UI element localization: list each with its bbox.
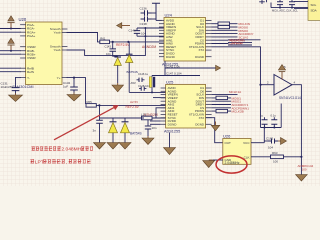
wire VCC riser: [263, 128, 265, 143]
pins U20 right: [62, 29, 67, 78]
svg-text:MCLK1A: MCLK1A: [229, 90, 242, 94]
svg-text:U20: U20: [19, 17, 27, 22]
ground below C133: [67, 93, 81, 101]
ground diode D4: [119, 143, 131, 150]
capacitor C136: [140, 7, 157, 16]
wire U20 right pin2: [67, 50, 145, 55]
wire buffer output down: [292, 85, 301, 175]
wire U26 VCC pin: [251, 142, 264, 144]
svg-text:Ysub: Ysub: [53, 31, 60, 35]
svg-text:Y+: Y+: [57, 76, 61, 80]
power port VAA lower: [8, 38, 14, 52]
ground U25 DGND: [211, 125, 220, 131]
IC U25 ADS1255 body: [166, 80, 206, 129]
wire bracket top right: [271, 7, 308, 9]
red annotation arrowhead: [113, 105, 119, 110]
svg-text:Y-: Y-: [27, 76, 30, 80]
ground below C131: [9, 94, 23, 102]
pins U24 right: [206, 20, 212, 56]
U20 pin names left: [27, 23, 36, 80]
wire U26 GND pin: [213, 159, 223, 161]
junction AIN rail: [98, 104, 100, 106]
junction cap A: [112, 41, 114, 43]
stub rows to buffer column: [228, 40, 261, 45]
wire left inputs group3: [0, 68, 21, 72]
wire to MCLKIN label: [230, 23, 238, 25]
wire Y+ output: [67, 78, 86, 104]
svg-text:SCL: SCL: [311, 3, 317, 7]
resistor R55: [218, 22, 230, 25]
capacitor C129: [139, 87, 146, 91]
power arrow VREF mid: [216, 65, 221, 71]
U25 pin names right: [189, 86, 205, 126]
junction buffer input: [259, 84, 261, 86]
capacitor C133: [63, 78, 77, 93]
U26 pin names: [225, 141, 233, 162]
U20 pin names right: [50, 27, 61, 80]
svg-text:MCU_ADC_CLK_SCL: MCU_ADC_CLK_SCL: [272, 8, 298, 12]
wire VREF mid: [165, 67, 216, 69]
svg-text:PGA+: PGA+: [27, 34, 36, 38]
svg-text:Ysub: Ysub: [53, 48, 60, 52]
wire vertical mid column: [144, 28, 146, 55]
wire R63 to vertical: [284, 156, 302, 158]
wire decoupling bracket: [261, 104, 282, 128]
svg-text:REF2.5V: REF2.5V: [126, 105, 140, 109]
svg-text:XT2: XT2: [198, 48, 204, 52]
power rail A5V top: [152, 3, 162, 20]
svg-text:10n: 10n: [152, 126, 157, 130]
wire diode B rail: [100, 105, 145, 120]
pins U25 right: [206, 88, 212, 124]
decoupling capacitor C144: [260, 114, 268, 128]
inductor L13: [141, 112, 152, 119]
resistor R65: [86, 100, 96, 107]
svg-text:104: 104: [268, 146, 273, 150]
svg-text:C165: C165: [266, 137, 274, 141]
svg-text:MCLK2B: MCLK2B: [232, 110, 244, 114]
junction mid column: [144, 35, 146, 37]
wire mid vertical stub: [164, 61, 166, 76]
wire RefB to C131: [16, 77, 21, 79]
ground diode D3: [107, 143, 119, 150]
capacitor C138: [140, 16, 157, 26]
power port arrow left VREF: [117, 23, 130, 29]
capacitor C151 top right: [289, 0, 295, 8]
wire AVDD row into U25: [129, 91, 165, 93]
svg-text:A2.5V: A2.5V: [130, 100, 138, 104]
svg-text:10uF/25V: 10uF/25V: [1, 85, 14, 89]
diode D3 BAT54S: [109, 118, 118, 143]
capacitor C141: [145, 120, 157, 136]
IC U24 ADS1255 body: [164, 13, 206, 62]
resistor R61: [100, 37, 110, 44]
svg-text:U25: U25: [166, 80, 174, 85]
red annotation text line1: [31, 146, 93, 151]
svg-text:0.1u: 0.1u: [271, 114, 277, 118]
wire into note box row2: [294, 7, 308, 9]
svg-text:C142 1.0k: C142 1.0k: [166, 64, 180, 68]
wire DRDY row: [212, 33, 238, 35]
svg-text:U26: U26: [223, 134, 231, 139]
wire cap C140 rows to IC1: [137, 28, 164, 36]
inverter U27 SN74LVC1G14: [274, 75, 301, 101]
junction R63 output: [300, 156, 302, 158]
red ellipse annotation: [216, 156, 247, 173]
wire DGND down: [215, 122, 217, 126]
svg-text:3n: 3n: [93, 129, 97, 133]
wire into note box row1: [294, 1, 308, 3]
wire L13 to IC2: [152, 108, 166, 118]
svg-text:ADS1255: ADS1255: [164, 129, 180, 133]
power arrow U27 VCC: [278, 65, 286, 80]
wire MISO row: [212, 29, 238, 31]
svg-text:R61: R61: [100, 37, 106, 41]
junction diode A2: [127, 41, 129, 43]
power port VAA upper: [8, 16, 14, 30]
resistor R57: [216, 96, 228, 99]
svg-text:DGND: DGND: [168, 122, 178, 126]
svg-text:RefS: RefS: [27, 70, 34, 74]
wire MCLKIN row: [212, 23, 219, 25]
svg-text:SN74LVC1G14: SN74LVC1G14: [279, 96, 301, 100]
wire VREFP short row: [153, 97, 166, 99]
svg-text:C136: C136: [140, 7, 148, 11]
capacitor C139/C140: [129, 28, 147, 36]
wire mid second: [152, 75, 200, 77]
wire DVDD left: [150, 120, 161, 122]
svg-text:1uF: 1uF: [63, 85, 68, 89]
junction Y+ / C133: [73, 77, 75, 79]
svg-text:100: 100: [302, 168, 307, 172]
wire cap under U25: [169, 133, 171, 148]
decoupling capacitor C145: [271, 114, 278, 128]
wire C165 tap: [264, 140, 268, 142]
capacitor C131: [1, 78, 19, 94]
ground C165: [278, 138, 287, 145]
wire AIN rail to IC2: [96, 104, 165, 106]
wire left inputs group2: [0, 51, 21, 55]
svg-text:R63: R63: [272, 151, 278, 155]
pins U24 left: [159, 20, 164, 56]
ground buffer output bottom: [296, 175, 308, 181]
svg-text:2.048MHz: 2.048MHz: [225, 161, 240, 165]
diode D2 BAT54S: [126, 42, 133, 63]
wire MISO1 row: [212, 100, 231, 102]
U24 pin names right: [189, 19, 205, 59]
wire XT1 row to oscillator: [206, 118, 223, 143]
svg-text:2.048MHz: 2.048MHz: [61, 147, 84, 153]
component stub far top: [259, 0, 266, 4]
svg-text:BAT54S: BAT54S: [127, 70, 138, 74]
wire DRDY1 row: [212, 104, 231, 106]
wire U26 CLK pin: [251, 156, 271, 158]
oscillator U26 body: [223, 134, 251, 165]
svg-text:VSNR: VSNR: [27, 56, 36, 60]
wire polarized cap column: [151, 76, 153, 93]
wire left inputs group1: [0, 29, 21, 33]
U25 pin names left: [168, 86, 178, 126]
svg-text:XT2: XT2: [199, 116, 205, 120]
wire RESET left: [150, 123, 161, 125]
resistor R58: [216, 109, 228, 112]
svg-text:,: ,: [66, 160, 67, 165]
ground C141: [142, 136, 154, 145]
svg-text:DGND: DGND: [195, 122, 205, 126]
ground U26: [203, 160, 215, 168]
resistor R56: [218, 25, 230, 28]
wire buffer input: [261, 84, 275, 86]
svg-text:C143: C143: [105, 45, 112, 49]
svg-text:C140: C140: [129, 29, 137, 33]
svg-text:MISO10: MISO10: [232, 41, 243, 45]
wire REF2.5V rail: [110, 41, 165, 43]
svg-text:A5V: A5V: [131, 81, 136, 85]
svg-text:AGND2M: AGND2M: [142, 45, 156, 49]
svg-text:C147 0.104: C147 0.104: [166, 72, 182, 76]
svg-text:100: 100: [273, 160, 278, 164]
capacitor C150 top right: [277, 0, 283, 8]
svg-text:104: 104: [106, 52, 111, 56]
diode D4 BAT54S: [121, 118, 130, 143]
junction bracket dots: [279, 7, 281, 9]
svg-text:LPT: LPT: [35, 159, 44, 165]
red annotation text line2: [30, 159, 90, 164]
svg-text:REF2.5V: REF2.5V: [116, 43, 130, 47]
wire MOSI row: [212, 26, 219, 28]
ground under U25: [164, 148, 176, 155]
capacitor C165: [266, 137, 278, 150]
ground diode pair A: [112, 83, 124, 92]
wire MCLK column to osc VCC: [260, 85, 262, 128]
svg-text:DGND: DGND: [195, 55, 205, 59]
wire XT1 to buffer column: [212, 47, 261, 85]
U24 pin names left: [166, 19, 176, 59]
svg-text:C138: C138: [140, 22, 148, 26]
wire PDWN1 row: [212, 107, 231, 109]
pins U25 left: [161, 88, 166, 124]
junction AVDD row: [151, 91, 153, 93]
svg-text:VCC: VCC: [243, 141, 250, 145]
pins U20 left: [21, 25, 26, 78]
wire diode D2 down: [128, 63, 130, 93]
wire to MOSI0 label: [230, 26, 238, 28]
wire R57 out: [212, 97, 231, 99]
junction decoupling caps: [264, 127, 266, 129]
svg-text:R65: R65: [87, 100, 93, 104]
svg-text:L13: L13: [141, 112, 146, 116]
stub MCLK1B: [212, 43, 229, 45]
wire R58 out: [212, 110, 231, 112]
sheet background: [0, 0, 320, 186]
svg-text:BAT54S: BAT54S: [130, 132, 142, 136]
wire MOSI1 row: [212, 94, 238, 96]
capacitor C134 4.7uF: [137, 72, 156, 88]
svg-text:SDA: SDA: [311, 9, 317, 13]
red annotation arrow line: [54, 107, 116, 140]
svg-text:U24: U24: [165, 13, 173, 18]
wire SCLK row: [212, 36, 238, 38]
resistor R63: [271, 151, 284, 163]
svg-text:OUT: OUT: [225, 141, 232, 145]
svg-text:DGND: DGND: [166, 55, 176, 59]
wire diodes A to ground: [117, 65, 119, 83]
svg-text:C146 1u: C146 1u: [138, 72, 149, 76]
wire U20 right pin1: [67, 33, 100, 42]
diode D1 BAT54S: [114, 56, 121, 65]
ground C135: [94, 143, 106, 150]
wire bracket left riser: [270, 3, 272, 8]
stub ADCPDWN: [212, 39, 229, 41]
note box top right: [308, 0, 320, 20]
capacitor C143: [105, 42, 118, 56]
IC U20 body: [19, 17, 63, 85]
capacitor C135: [93, 120, 103, 142]
